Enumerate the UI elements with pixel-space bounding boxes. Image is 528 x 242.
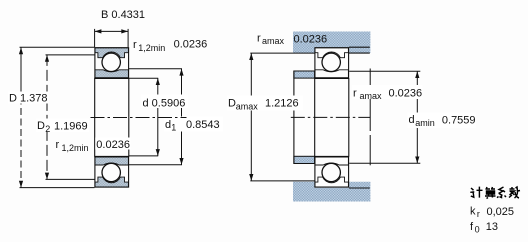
svg-text:r: r [257, 32, 261, 44]
svg-text:1.2126: 1.2126 [265, 98, 299, 110]
shaft shoulder lower [294, 156, 315, 163]
D2 arrow bottom [45, 173, 49, 180]
label D2 1.1969 [36, 119, 89, 133]
d dim line [157, 78, 159, 156]
svg-text:2: 2 [45, 124, 50, 134]
bearing bottom half (left) [94, 157, 128, 187]
D ext top [20, 46, 95, 48]
svg-text:D: D [37, 120, 45, 132]
damin ext bottom [349, 162, 420, 164]
label d1 0.8543 [164, 117, 223, 132]
ramax tick line right [369, 69, 371, 166]
housing lower block [293, 182, 370, 202]
B ext right [127, 29, 129, 47]
D2 dim line [46, 55, 48, 179]
bore silhouette right line (right fig) [348, 78, 350, 157]
svg-text:amin: amin [415, 118, 435, 128]
housing shoulder surface line left (top) = Damax ext [250, 52, 314, 54]
D2 ext bottom [46, 178, 95, 180]
d ext bottom [129, 155, 158, 157]
B ext left [94, 29, 96, 47]
svg-text:0.7559: 0.7559 [442, 114, 476, 126]
svg-text:1,2min: 1,2min [62, 143, 89, 153]
svg-text:1,2min: 1,2min [138, 43, 165, 53]
d1 ext bottom [129, 164, 182, 166]
svg-text:0.0236: 0.0236 [174, 39, 208, 51]
D ext bottom [20, 187, 95, 189]
svg-text:13: 13 [486, 221, 498, 233]
char xi [497, 187, 506, 198]
svg-text:0.0236: 0.0236 [96, 139, 130, 151]
svg-text:0,025: 0,025 [487, 206, 515, 218]
svg-text:0.0236: 0.0236 [389, 88, 423, 100]
housing bore line right of bearing (bottom) [349, 187, 370, 189]
bore silhouette left line [94, 78, 96, 157]
d arrow top [156, 78, 160, 85]
bearing top half (left) [94, 48, 128, 78]
bore silhouette left line (right fig) [314, 78, 316, 157]
char suan [485, 187, 496, 199]
B arrow right [121, 29, 128, 33]
d ext top [129, 77, 158, 79]
CJK title 计算系数 (drawn strokes) [470, 187, 520, 199]
d1 ext top [129, 68, 182, 70]
label Damax 1.2126 [227, 96, 303, 111]
Damax arrow bottom [249, 174, 253, 181]
svg-text:r: r [477, 209, 480, 219]
svg-text:d: d [409, 114, 415, 126]
d1 dim line [181, 69, 183, 165]
svg-text:k: k [470, 206, 476, 218]
svg-text:1: 1 [171, 123, 176, 133]
svg-text:B 0.4331: B 0.4331 [101, 9, 145, 21]
d1 arrow bottom [179, 158, 183, 165]
svg-text:amax: amax [360, 91, 383, 101]
axis line left [91, 117, 187, 119]
svg-text:0.8543: 0.8543 [186, 119, 220, 131]
D arrow top [19, 47, 23, 54]
housing upper block [293, 32, 370, 54]
svg-text:amax: amax [236, 101, 259, 111]
axis line right [291, 116, 371, 118]
damin dim line [416, 71, 418, 163]
damin arrow bottom [415, 157, 419, 164]
svg-text:0.0236: 0.0236 [294, 34, 328, 46]
d1 arrow top [179, 69, 183, 76]
svg-text:r: r [133, 39, 137, 51]
D2 ext top [46, 54, 95, 56]
svg-text:d 0.5906: d 0.5906 [143, 98, 186, 110]
svg-text:r: r [353, 87, 357, 99]
label D 1.378 [8, 92, 49, 104]
svg-text:D 1.378: D 1.378 [9, 93, 48, 105]
char shu [509, 187, 520, 198]
svg-text:1.1969: 1.1969 [54, 120, 88, 132]
svg-text:d: d [165, 119, 171, 131]
Damax dim line [250, 53, 252, 181]
housing bore line right of bearing (top) [349, 46, 370, 48]
svg-text:amax: amax [262, 36, 285, 46]
Damax arrow top [249, 53, 253, 60]
B dim line [95, 30, 129, 32]
housing shoulder line right (top) [349, 52, 370, 54]
svg-text:0: 0 [475, 225, 480, 235]
label damin 0.7559 [408, 113, 477, 129]
Damax ext bottom [250, 180, 314, 182]
label d 0.5906 [141, 95, 188, 109]
damin arrow top [415, 71, 419, 78]
label r amax 0.0236 (right) [352, 85, 423, 99]
B arrow left [95, 29, 102, 33]
D arrow bottom [19, 181, 23, 188]
char ji [470, 187, 482, 198]
D2 arrow top [45, 55, 49, 62]
svg-text:r: r [56, 139, 60, 151]
shaft shoulder upper [294, 71, 315, 78]
shaft shoulder face line [293, 71, 295, 164]
damin ext top [349, 70, 420, 72]
d arrow bottom [156, 149, 160, 156]
bore silhouette right line [128, 78, 130, 157]
D dim line [20, 47, 22, 87]
bearing top half (right) [314, 48, 349, 78]
ramax tick dash gap [369, 131, 371, 135]
bearing bottom half (right) [314, 157, 349, 187]
label r 1,2min 0.0236 (bottom) [95, 138, 131, 150]
